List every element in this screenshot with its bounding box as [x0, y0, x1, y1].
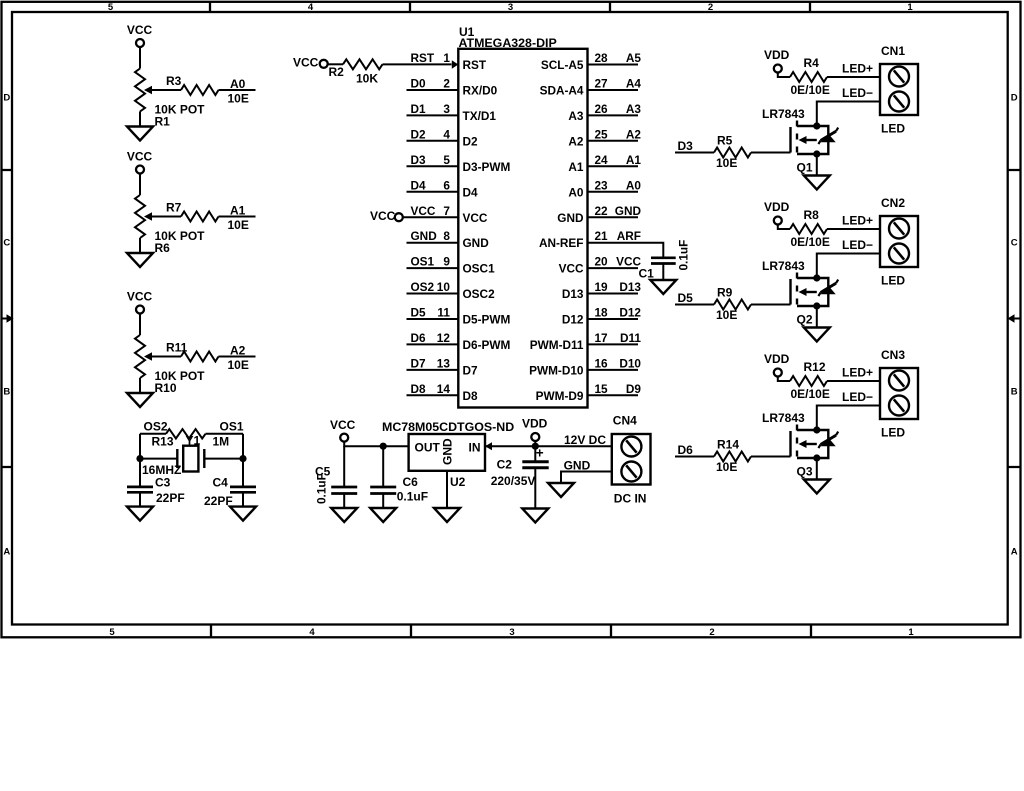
svg-text:GND: GND: [463, 236, 490, 250]
svg-text:D5: D5: [411, 306, 427, 320]
svg-text:7: 7: [443, 204, 450, 218]
svg-text:R14: R14: [717, 438, 739, 452]
border column ticks bottom: [211, 625, 811, 638]
wire LED- to drain: [817, 102, 880, 127]
svg-text:28: 28: [595, 51, 609, 65]
wire VDD to resistor: [778, 377, 790, 381]
svg-text:R2: R2: [329, 65, 345, 79]
svg-text:D6: D6: [678, 443, 694, 457]
svg-text:A: A: [1011, 547, 1018, 558]
svg-text:PWM-D9: PWM-D9: [536, 389, 584, 403]
transistor Q3 LR7843: [791, 425, 839, 464]
ground: [370, 508, 396, 522]
wire pin 4 D2: [407, 140, 459, 142]
svg-text:5: 5: [109, 627, 115, 638]
svg-text:D3: D3: [411, 153, 427, 167]
junction source Q2: [813, 302, 820, 309]
svg-text:2: 2: [443, 77, 450, 91]
svg-text:3: 3: [509, 627, 514, 638]
svg-text:D8: D8: [411, 382, 427, 396]
wire net A2: [219, 356, 256, 358]
svg-text:LED+: LED+: [842, 62, 873, 76]
svg-text:D11: D11: [620, 331, 641, 345]
regulator IN pin arrow: [485, 442, 492, 450]
svg-text:16: 16: [595, 357, 609, 371]
svg-text:OSC2: OSC2: [463, 287, 496, 301]
resistor R11: [181, 352, 219, 362]
capacitor C1: [651, 258, 676, 264]
wire C6 to ground: [382, 494, 384, 509]
svg-text:LED+: LED+: [842, 214, 873, 228]
border row ticks right: [1008, 170, 1021, 467]
svg-text:R13: R13: [152, 435, 174, 449]
svg-text:CN2: CN2: [881, 196, 905, 210]
wire wiper to resistor: [151, 89, 181, 91]
wire LED+: [827, 380, 880, 382]
svg-text:A0: A0: [568, 185, 584, 199]
svg-text:A0: A0: [230, 77, 246, 91]
svg-text:A3: A3: [626, 102, 642, 116]
svg-text:3: 3: [443, 102, 450, 116]
svg-text:U2: U2: [450, 475, 466, 489]
ground: [650, 280, 676, 294]
svg-text:19: 19: [595, 280, 609, 294]
svg-text:LED: LED: [881, 274, 905, 288]
svg-text:LED−: LED−: [842, 86, 873, 100]
svg-text:D2: D2: [463, 134, 479, 148]
resistor R3: [181, 85, 219, 95]
potentiometer R10 body: [135, 335, 145, 378]
svg-text:+: +: [536, 446, 544, 461]
junction C6: [380, 443, 387, 450]
ground: [127, 127, 153, 141]
ground: [434, 508, 460, 522]
svg-text:D7: D7: [411, 357, 427, 371]
svg-text:OS2: OS2: [411, 280, 435, 294]
svg-text:C4: C4: [213, 476, 229, 490]
capacitor C6: [370, 487, 396, 494]
svg-text:D5: D5: [678, 291, 694, 305]
wire pin 24 A1: [588, 165, 639, 167]
svg-text:VCC: VCC: [127, 23, 153, 37]
ground: [804, 176, 830, 190]
svg-text:D12: D12: [619, 306, 641, 320]
junction source Q3: [813, 454, 820, 461]
connector CN2: [880, 216, 918, 267]
wire pin 16 D10: [588, 369, 639, 371]
svg-text:GND: GND: [411, 229, 438, 243]
svg-text:C: C: [1011, 238, 1018, 249]
svg-text:R10: R10: [155, 381, 177, 395]
wire VCC to R2: [327, 63, 343, 65]
svg-text:CN1: CN1: [881, 44, 905, 58]
svg-text:5: 5: [443, 153, 450, 167]
svg-text:3: 3: [508, 2, 513, 13]
wire LED+: [827, 76, 880, 78]
svg-text:23: 23: [595, 178, 609, 192]
svg-text:20: 20: [595, 255, 609, 269]
wire OS1 node top: [206, 433, 244, 435]
resistor R7: [181, 212, 219, 222]
svg-text:RX/D0: RX/D0: [463, 84, 498, 98]
wire pin 28 A5: [588, 64, 639, 66]
svg-text:R6: R6: [155, 241, 171, 255]
svg-text:D13: D13: [562, 287, 584, 301]
svg-text:10E: 10E: [716, 460, 737, 474]
svg-text:D12: D12: [562, 313, 584, 327]
wire pin 25 A2: [588, 140, 639, 142]
wire VDD 12V DC: [485, 445, 612, 447]
wire pin 22 GND: [588, 216, 639, 218]
potentiometer R6 wiper arrow: [144, 212, 152, 221]
svg-text:26: 26: [595, 102, 609, 116]
wire pin 6 D4: [407, 191, 459, 193]
svg-text:0E/10E: 0E/10E: [791, 83, 830, 97]
VDD terminal: [531, 433, 539, 441]
junction drain Q1: [813, 122, 820, 129]
wire pin 7 VCC: [403, 216, 458, 218]
svg-text:Q3: Q3: [797, 465, 813, 479]
svg-text:D13: D13: [619, 280, 641, 294]
ground: [230, 507, 256, 521]
svg-text:18: 18: [595, 306, 609, 320]
svg-text:D9: D9: [626, 382, 642, 396]
wire LED- to drain: [817, 254, 880, 279]
VCC terminal R1: [136, 39, 144, 47]
wire C2 to ground: [534, 468, 536, 509]
svg-text:13: 13: [437, 357, 451, 371]
junction source Q1: [813, 150, 820, 157]
wire pin 5 D3: [407, 165, 459, 167]
potentiometer R1 body: [135, 69, 145, 112]
wire pin 19 D13: [588, 293, 639, 295]
svg-text:ATMEGA328-DIP: ATMEGA328-DIP: [459, 36, 557, 50]
VCC terminal U2: [340, 434, 348, 442]
svg-text:LED−: LED−: [842, 390, 873, 404]
svg-text:LED−: LED−: [842, 238, 873, 252]
svg-text:10E: 10E: [228, 218, 249, 232]
svg-text:10: 10: [437, 280, 451, 294]
svg-text:10E: 10E: [228, 92, 249, 106]
wire LED- to drain: [817, 406, 880, 431]
svg-text:1: 1: [443, 51, 450, 65]
wire pin 2 D0: [407, 89, 459, 91]
wire to crystal right: [204, 458, 243, 460]
svg-text:R1: R1: [155, 115, 171, 129]
wire LED+: [827, 228, 880, 230]
svg-text:4: 4: [308, 2, 314, 13]
wire D3: [675, 152, 714, 154]
svg-text:VDD: VDD: [522, 417, 548, 431]
junction drain Q3: [813, 426, 820, 433]
svg-text:VCC: VCC: [127, 150, 153, 164]
wire C4 to ground: [242, 492, 244, 506]
svg-text:ARF: ARF: [617, 229, 641, 243]
svg-text:GND: GND: [615, 204, 642, 218]
junction drain Q2: [813, 274, 820, 281]
svg-text:A1: A1: [626, 153, 642, 167]
svg-text:22: 22: [595, 204, 609, 218]
potentiometer R1 wiper arrow: [144, 86, 152, 95]
wire to C2: [534, 446, 536, 462]
wire pin 14 D8: [407, 394, 459, 396]
wire VCC to OUT: [344, 442, 408, 447]
svg-text:PWM-D10: PWM-D10: [529, 364, 584, 378]
svg-text:OS1: OS1: [411, 255, 435, 269]
capacitor C2 polarized: [522, 462, 548, 468]
wire to C5: [343, 446, 345, 487]
svg-text:AN-REF: AN-REF: [539, 236, 584, 250]
svg-text:8: 8: [443, 229, 450, 243]
svg-text:C: C: [3, 238, 10, 249]
wire pin 3 D1: [407, 114, 459, 116]
VCC terminal R2: [320, 60, 328, 68]
svg-text:4: 4: [309, 627, 315, 638]
svg-text:LR7843: LR7843: [762, 411, 805, 425]
ground: [522, 509, 548, 523]
wire D5: [675, 304, 714, 306]
svg-text:D4: D4: [463, 185, 479, 199]
ground: [331, 508, 357, 522]
wire C5 to ground: [343, 494, 345, 509]
svg-text:C2: C2: [497, 458, 513, 472]
svg-text:R3: R3: [166, 74, 182, 88]
wire pot to ground: [139, 238, 141, 253]
VDD terminal CN3: [774, 369, 782, 377]
svg-text:B: B: [3, 387, 10, 398]
svg-text:R8: R8: [804, 208, 820, 222]
regulator U2 MC78M05 box: [409, 434, 485, 471]
svg-text:PWM-D11: PWM-D11: [530, 338, 584, 352]
svg-text:GND: GND: [557, 211, 584, 225]
svg-text:D6-PWM: D6-PWM: [463, 338, 511, 352]
wire pin 21 ARF: [588, 242, 639, 244]
wire D6: [675, 456, 714, 458]
wire C1 to ground: [662, 264, 664, 281]
transistor Q1 LR7843: [791, 121, 839, 160]
potentiometer R10 wiper arrow: [144, 352, 152, 361]
wire pin 20 VCC: [588, 267, 639, 269]
svg-text:D0: D0: [411, 77, 427, 91]
svg-text:D3-PWM: D3-PWM: [463, 160, 511, 174]
wire pin 15 D9: [588, 394, 639, 396]
svg-text:24: 24: [595, 153, 609, 167]
svg-text:D10: D10: [619, 357, 641, 371]
svg-text:0E/10E: 0E/10E: [791, 387, 830, 401]
svg-text:22PF: 22PF: [156, 491, 185, 505]
VCC terminal R6: [136, 166, 144, 174]
wire OS2 vertical: [139, 434, 141, 487]
svg-text:A4: A4: [626, 77, 642, 91]
resistor R5: [714, 148, 751, 158]
svg-text:RST: RST: [463, 58, 487, 72]
svg-text:17: 17: [595, 331, 609, 345]
svg-text:15: 15: [595, 382, 609, 396]
ground: [804, 480, 830, 494]
ground: [127, 393, 153, 407]
svg-text:C1: C1: [639, 267, 655, 281]
wire pin 10 OS2: [407, 293, 459, 295]
svg-text:1: 1: [907, 2, 913, 13]
capacitor C5: [331, 487, 357, 494]
svg-text:D1: D1: [411, 102, 427, 116]
wire OS2 node top: [140, 433, 166, 435]
VDD terminal CN1: [774, 65, 782, 73]
wire pin 26 A3: [588, 114, 639, 116]
transistor Q2 LR7843: [791, 273, 839, 312]
wire RST net: [383, 63, 452, 65]
svg-text:0E/10E: 0E/10E: [791, 235, 830, 249]
svg-text:VCC: VCC: [293, 56, 319, 70]
wire pin 17 D11: [588, 343, 639, 345]
svg-text:D: D: [3, 93, 10, 104]
svg-text:OS2: OS2: [144, 420, 168, 434]
svg-text:VCC: VCC: [127, 290, 153, 304]
svg-text:A5: A5: [626, 51, 642, 65]
wire source to ground: [816, 306, 818, 328]
svg-text:MC78M05CDTGOS-ND: MC78M05CDTGOS-ND: [382, 420, 514, 434]
svg-text:A1: A1: [230, 204, 246, 218]
wire pot to ground: [139, 112, 141, 127]
border center arrow right: [1015, 318, 1021, 320]
svg-text:10E: 10E: [228, 358, 249, 372]
resistor R9: [714, 300, 751, 310]
svg-text:GND: GND: [564, 459, 591, 473]
svg-text:14: 14: [437, 382, 451, 396]
svg-text:VCC: VCC: [411, 204, 436, 218]
svg-text:0.1uF: 0.1uF: [397, 490, 428, 504]
capacitor C4: [230, 487, 256, 492]
svg-text:OS1: OS1: [220, 420, 244, 434]
svg-text:A1: A1: [568, 160, 584, 174]
svg-text:R5: R5: [717, 134, 733, 148]
svg-text:B: B: [1011, 387, 1018, 398]
svg-text:LR7843: LR7843: [762, 107, 805, 121]
svg-text:5: 5: [108, 2, 114, 13]
crystal Y1: [183, 446, 198, 472]
svg-text:4: 4: [443, 127, 450, 141]
wire pin 18 D12: [588, 318, 639, 320]
resistor R13: [166, 429, 206, 438]
svg-text:LED: LED: [881, 122, 905, 136]
svg-text:2: 2: [709, 627, 714, 638]
wire to crystal left: [140, 458, 177, 460]
wire VCC to pot: [139, 174, 141, 196]
svg-text:OUT: OUT: [415, 441, 441, 455]
svg-text:D: D: [1011, 93, 1018, 104]
VCC terminal R10: [136, 306, 144, 314]
svg-text:1: 1: [908, 627, 914, 638]
junction VDD: [532, 443, 539, 450]
svg-text:10K: 10K: [356, 71, 378, 85]
svg-text:A2: A2: [230, 344, 246, 358]
wire ARF to C1: [638, 243, 663, 258]
svg-text:R9: R9: [717, 286, 733, 300]
svg-text:0.1uF: 0.1uF: [677, 240, 691, 271]
wire source to ground: [816, 458, 818, 480]
wire VCC to pot: [139, 47, 141, 69]
wire U2 GND: [446, 471, 448, 508]
pin 1 RST input arrow: [452, 60, 459, 68]
resistor R8: [790, 224, 827, 234]
junction OS2 node: [136, 455, 143, 462]
resistor R12: [790, 376, 827, 386]
wire C3 to ground: [139, 492, 141, 506]
border row ticks left: [2, 170, 13, 467]
svg-text:12V DC: 12V DC: [564, 433, 606, 447]
svg-text:VCC: VCC: [370, 209, 396, 223]
wire wiper to resistor: [151, 356, 181, 358]
svg-text:VCC: VCC: [463, 211, 488, 225]
svg-text:21: 21: [595, 229, 609, 243]
svg-text:TX/D1: TX/D1: [463, 109, 497, 123]
wire OS1 vertical: [242, 434, 244, 487]
svg-text:D5-PWM: D5-PWM: [463, 313, 511, 327]
svg-text:LR7843: LR7843: [762, 259, 805, 273]
svg-text:11: 11: [437, 306, 450, 320]
svg-text:CN4: CN4: [613, 414, 637, 428]
svg-text:CN3: CN3: [881, 348, 905, 362]
svg-text:VDD: VDD: [764, 200, 790, 214]
ground: [127, 507, 153, 521]
svg-text:1M: 1M: [213, 435, 230, 449]
svg-text:D4: D4: [411, 178, 427, 192]
resistor R14: [714, 452, 751, 462]
connector CN4: [612, 434, 651, 485]
svg-text:10E: 10E: [716, 156, 737, 170]
svg-text:9: 9: [443, 255, 450, 269]
svg-text:C3: C3: [155, 476, 171, 490]
wire pin 27 A4: [588, 89, 639, 91]
svg-text:10E: 10E: [716, 308, 737, 322]
svg-text:Q2: Q2: [797, 313, 813, 327]
svg-text:D6: D6: [411, 331, 427, 345]
wire pin 8 GND: [407, 242, 459, 244]
svg-text:SDA-A4: SDA-A4: [540, 84, 584, 98]
svg-text:OSC1: OSC1: [463, 262, 496, 276]
svg-text:C6: C6: [403, 475, 419, 489]
svg-text:A: A: [3, 547, 10, 558]
svg-text:D2: D2: [411, 127, 427, 141]
junction OS1 node: [239, 455, 246, 462]
border inner frame: [12, 12, 1008, 625]
svg-text:GND: GND: [441, 438, 455, 465]
svg-text:A0: A0: [626, 178, 642, 192]
svg-text:RST: RST: [411, 51, 435, 65]
wire net A1: [219, 216, 256, 218]
resistor R4: [790, 72, 827, 82]
connector CN3: [880, 368, 918, 419]
svg-text:25: 25: [595, 127, 609, 141]
svg-text:27: 27: [595, 77, 609, 91]
wire pin 9 OS1: [407, 267, 459, 269]
svg-text:R4: R4: [804, 56, 820, 70]
wire to C6: [382, 446, 384, 487]
border center arrow left: [2, 318, 7, 320]
svg-text:DC IN: DC IN: [614, 492, 647, 506]
wire VDD to resistor: [778, 225, 790, 229]
VCC terminal pin 7: [395, 213, 403, 221]
svg-text:D7: D7: [463, 364, 479, 378]
wire CN4 GND: [561, 472, 612, 484]
potentiometer R6 body: [135, 195, 145, 238]
svg-text:LED+: LED+: [842, 366, 873, 380]
ground: [127, 253, 153, 267]
svg-text:VCC: VCC: [559, 262, 584, 276]
wire VCC to pot: [139, 314, 141, 336]
svg-text:Q1: Q1: [797, 161, 813, 175]
svg-text:SCL-A5: SCL-A5: [541, 58, 584, 72]
